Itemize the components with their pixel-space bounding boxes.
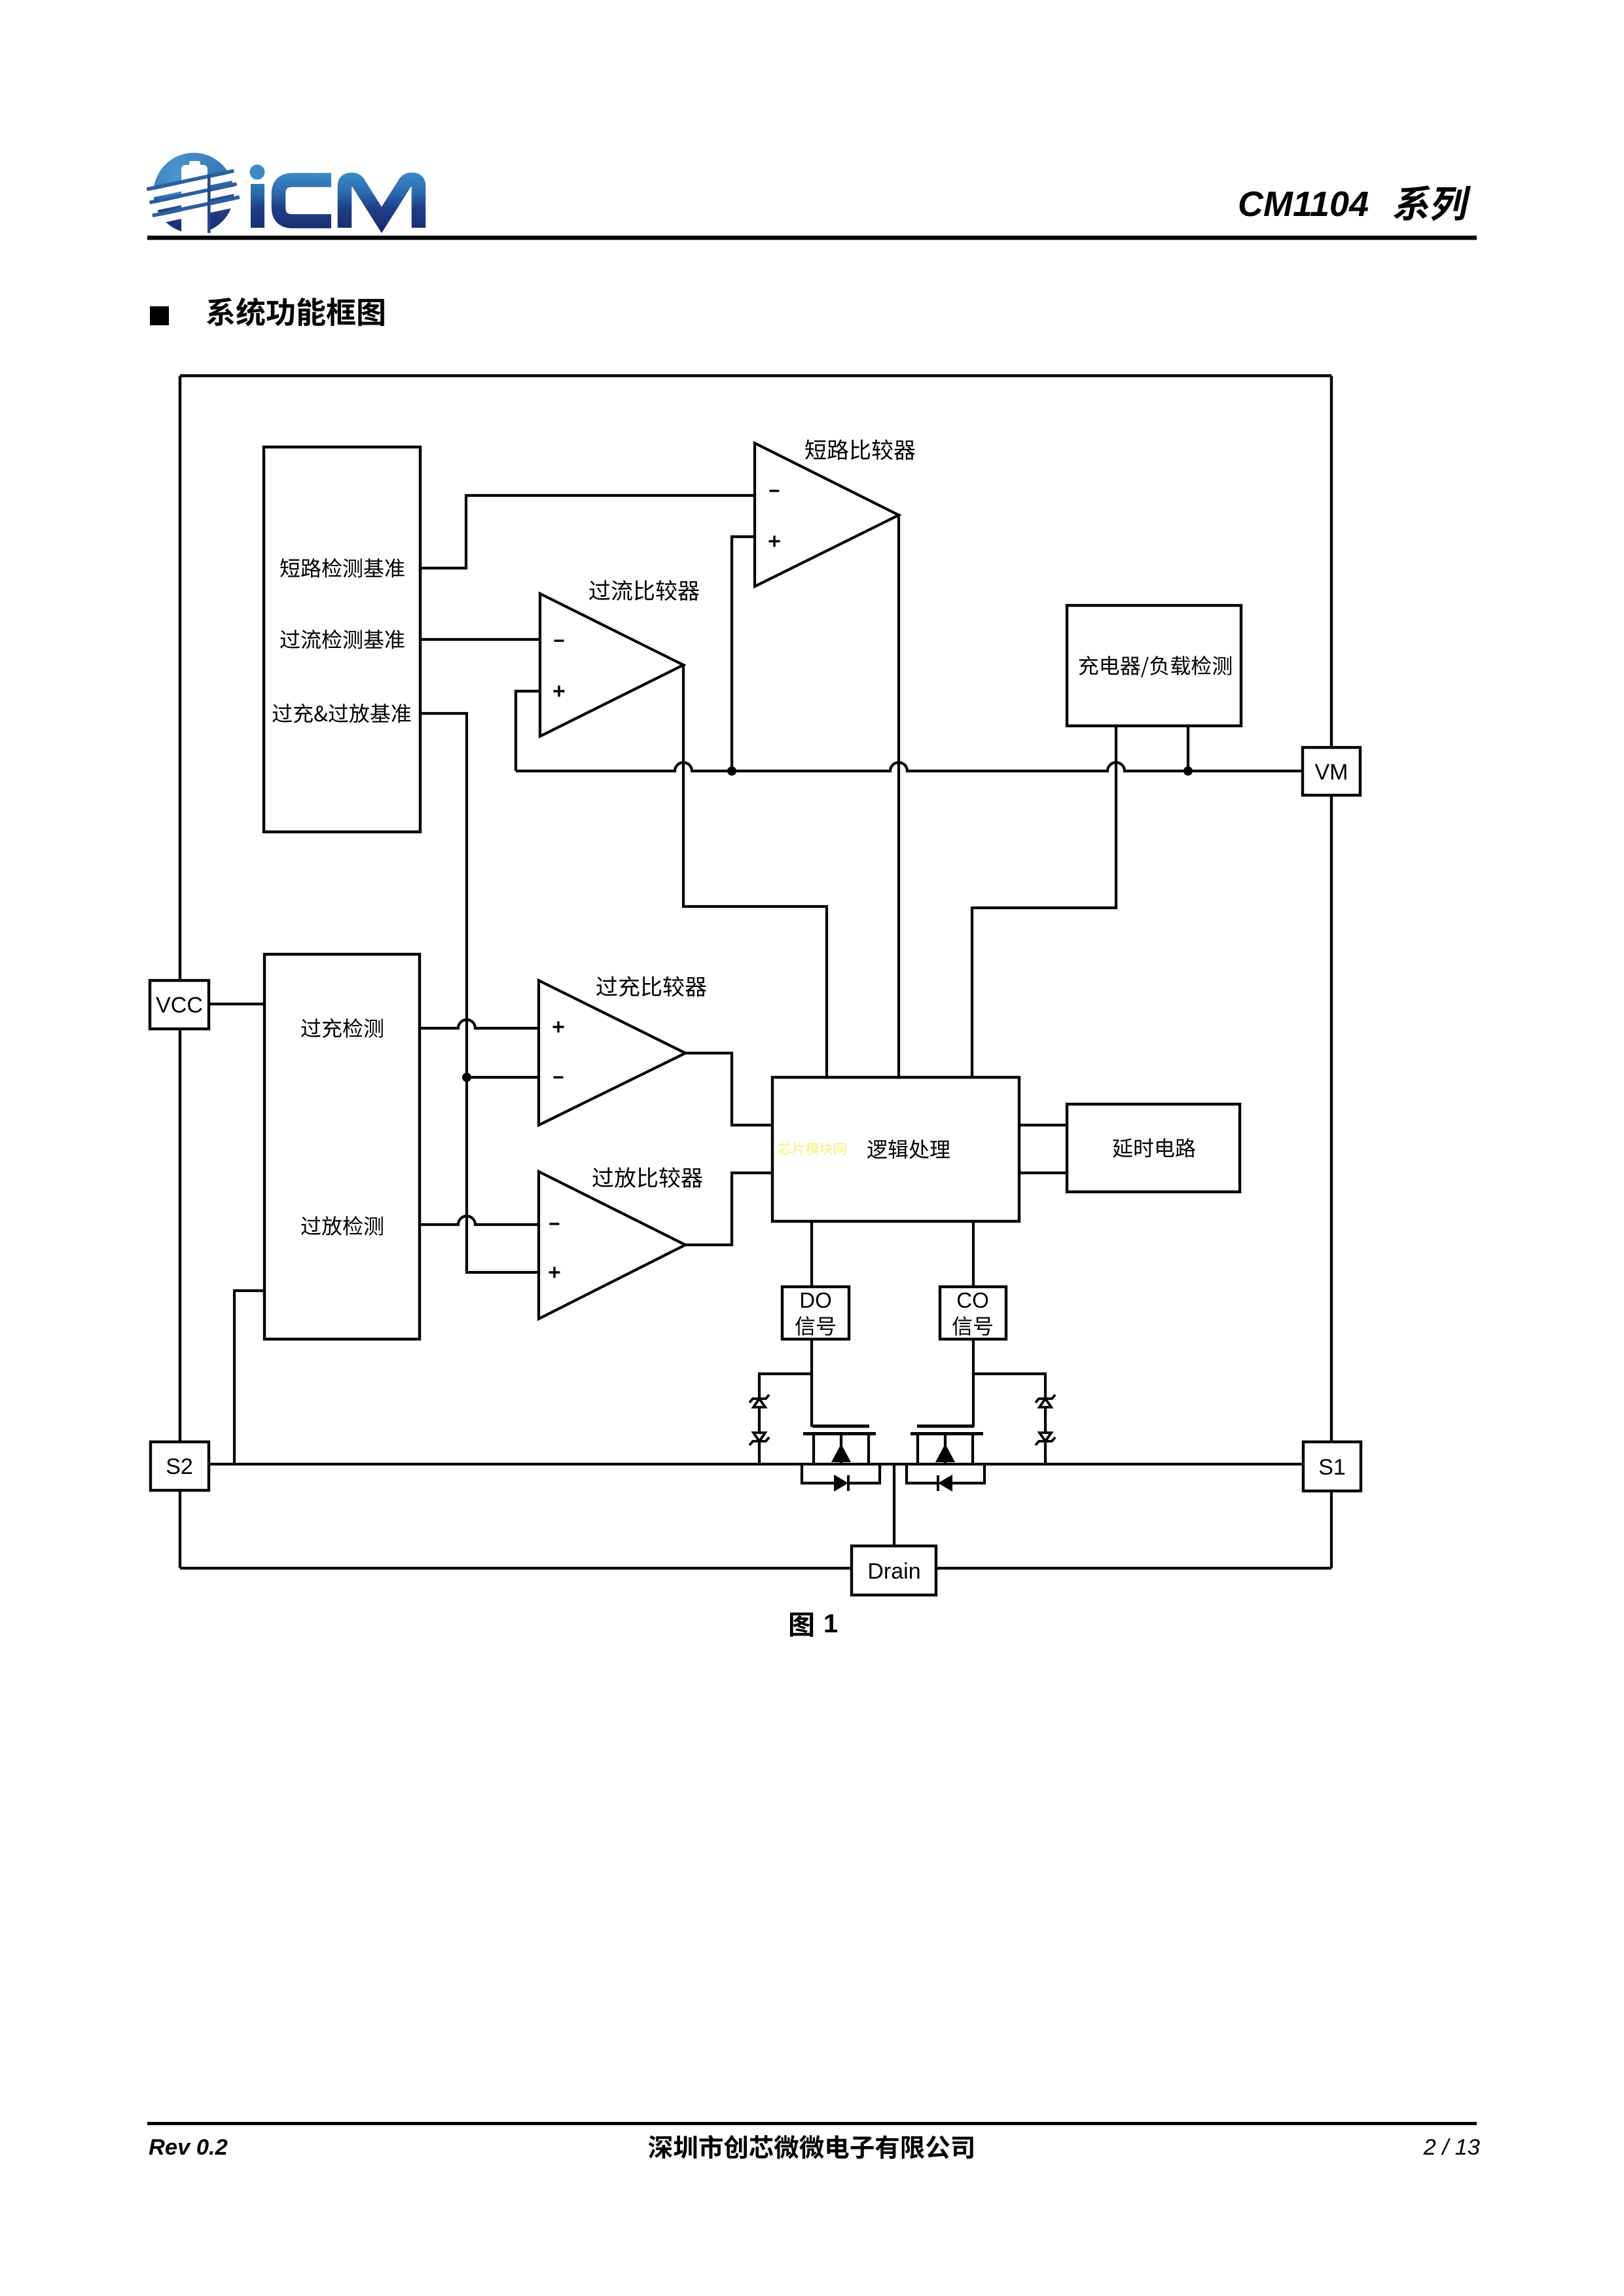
block 逻辑处理	[772, 1077, 1019, 1221]
wire: CO 信号 down to charge FET gate	[972, 1339, 975, 1427]
svg-text:2 / 13: 2 / 13	[1423, 2135, 1480, 2160]
wire: 过流检测基准 to 过流比较器 minus input	[420, 638, 540, 641]
svg-text:CM1104: CM1104	[1238, 185, 1369, 224]
block 延时电路	[1067, 1104, 1240, 1192]
logo battery right edge line	[208, 175, 211, 233]
wire: 充电器/负载检测 left lead down and over to 逻辑处理	[972, 726, 1116, 1077]
transistor Q1 discharge FET	[812, 1425, 869, 1428]
wire: 过充比较器 output to 逻辑处理	[685, 1053, 772, 1125]
wire: 过充检测 to 过充比较器 plus input (hops riser)	[420, 1020, 539, 1028]
outer boundary rectangle	[180, 376, 1331, 1442]
wire: VM sense bus (hops over comparator outputs and charger lead)	[516, 762, 1303, 771]
wire: riser branch to 过充比较器 minus input	[467, 1076, 539, 1079]
wire: 逻辑处理 to 延时电路 upper	[1019, 1124, 1067, 1126]
terminal VCC	[150, 980, 209, 1029]
logo text iCM	[250, 165, 265, 180]
svg-text:VCC: VCC	[156, 993, 203, 1018]
op-amp 短路比较器	[755, 443, 899, 586]
section bullet square	[150, 306, 169, 325]
wire: FET common drain down to Drain pad	[893, 1464, 895, 1546]
wire: 逻辑处理 to 延时电路 lower	[1019, 1172, 1067, 1174]
wire: S2 rail across to S1	[209, 1463, 1303, 1465]
svg-text:DO: DO	[799, 1288, 832, 1312]
section heading 系统功能框图	[207, 297, 384, 326]
wire: 短路检测基准 to 短路比较器 minus input	[420, 495, 755, 568]
watermark 芯片模块网	[778, 1142, 845, 1155]
wire: 逻辑处理 to DO 信号	[810, 1221, 813, 1287]
block 基准 references	[264, 447, 420, 832]
block DO 信号	[782, 1287, 849, 1339]
op-amp 过充比较器	[539, 980, 685, 1125]
footer company name	[649, 2135, 973, 2159]
svg-text:Rev 0.2: Rev 0.2	[149, 2135, 228, 2160]
wire: 过放检测 to 过放比较器 minus input (hops riser)	[420, 1216, 539, 1225]
terminal S2	[151, 1442, 209, 1490]
wire: VCC to 过充检测 block	[209, 1003, 264, 1005]
wire: S1 pin down to bottom rail	[1330, 1491, 1333, 1568]
svg-text:1: 1	[823, 1609, 838, 1638]
wire: 短路比较器 plus input to VM bus	[732, 537, 755, 771]
node: bus junction to 短路比较器 plus	[727, 766, 736, 776]
wire: 过流比较器 plus input to VM bus	[516, 691, 540, 771]
block 过充/过放检测	[264, 954, 420, 1339]
op-amp 过流比较器	[540, 594, 683, 736]
footer rule	[147, 2122, 1477, 2125]
svg-text:Drain: Drain	[867, 1559, 920, 1584]
logo battery symbol	[181, 161, 208, 234]
wire: 短路比较器 output down to 逻辑处理	[897, 516, 900, 1077]
transistor Q2 charge FET	[917, 1425, 974, 1428]
block CO 信号	[940, 1287, 1006, 1339]
svg-text:VM: VM	[1315, 760, 1348, 785]
svg-text:S2: S2	[166, 1454, 193, 1479]
caption 图 1	[790, 1613, 813, 1637]
wire: DO 信号 down to discharge FET gate	[810, 1339, 813, 1427]
terminal Drain	[852, 1546, 936, 1595]
wire: S2 pin down to bottom rail	[179, 1490, 181, 1568]
wire: 过流比较器 output down and over to 逻辑处理	[683, 665, 827, 1077]
header rule	[147, 236, 1477, 240]
wire: 过充&过放基准 reference riser	[420, 713, 539, 1272]
wire: bottom rail from S2 to S1 through Drain	[180, 1567, 1331, 1570]
node: bus junction to 充电器/负载检测 right lead	[1183, 766, 1193, 776]
svg-text:CO: CO	[956, 1288, 989, 1312]
terminal VM	[1303, 747, 1360, 795]
logo diagonal stripes	[147, 169, 242, 224]
node: junction on reference riser at 过充比较器 minus	[462, 1073, 471, 1082]
op-amp 过放比较器	[539, 1172, 685, 1319]
svg-text:S1: S1	[1318, 1455, 1346, 1480]
wire: 检测 block bottom tap down to S2 rail	[234, 1291, 264, 1464]
terminal S1	[1303, 1442, 1361, 1491]
wire: 充电器/负载检测 right lead to VM bus	[1187, 726, 1189, 771]
wire: 过放比较器 output to 逻辑处理	[685, 1173, 772, 1245]
gate protection zeners at x=1597	[973, 1374, 1045, 1464]
block 充电器/负载检测	[1067, 605, 1241, 726]
wire: 逻辑处理 to CO 信号	[972, 1221, 975, 1287]
gate protection zeners at x=1160	[759, 1374, 812, 1464]
